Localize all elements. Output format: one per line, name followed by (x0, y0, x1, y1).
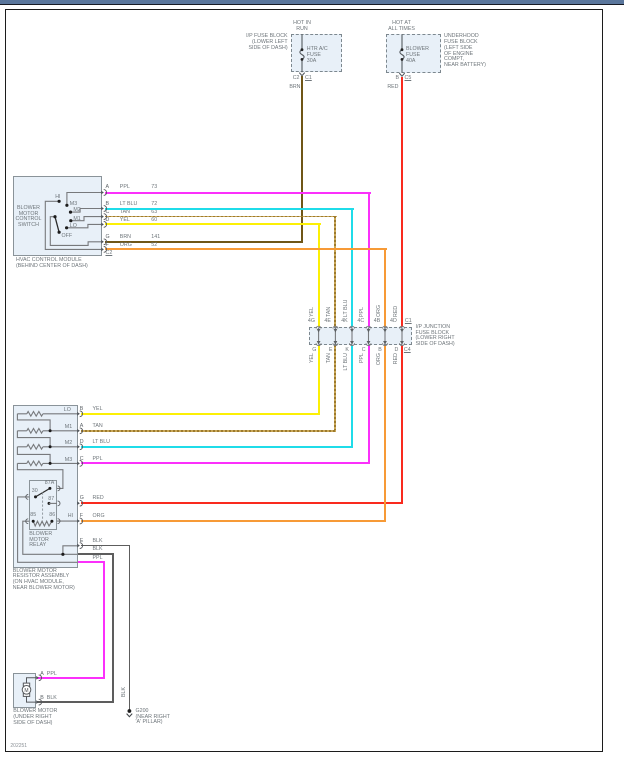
wire ORG horizontal to resistor pin F (81, 520, 387, 522)
relay pin label 30 (32, 489, 38, 495)
wire label BLK (vertical, near G200) (122, 685, 128, 697)
node HOT AT ALL TIMES (385, 21, 418, 33)
circuit 52 (151, 243, 157, 249)
I/P fuse block (dashed box) (291, 34, 342, 72)
fuse HTR A/C FUSE 30A label (307, 47, 328, 64)
wire BLK motor branch horizontal (78, 553, 114, 554)
wire label PPL (vertical, below) (360, 353, 366, 379)
wire ORG vertical below junction block (384, 345, 386, 522)
resistor pin C label (80, 457, 84, 463)
title bar dark underline (0, 4, 624, 6)
pin connector resistor E (77, 543, 82, 549)
wire junction block pass-through TAN (333, 326, 338, 345)
relay link (dashed) (42, 493, 44, 521)
wire LT BLU vertical below junction block (351, 345, 353, 448)
pin connector HVAC B (101, 206, 106, 212)
pin C label (106, 210, 110, 216)
wire PPL vertical below junction block (368, 345, 370, 464)
ground G200 label (136, 709, 170, 726)
pin connector relay 30 (26, 495, 28, 500)
relay pin label 87 (48, 497, 54, 503)
wire LT BLU vertical to junction block (351, 208, 353, 328)
switch position label M1 (73, 217, 80, 223)
label BLOWER MOTOR RESISTOR ASSEMBLY (13, 569, 75, 592)
wire switch HI contact to pin F (45, 201, 101, 249)
resistor pin A wire label TAN (93, 424, 103, 430)
switch contact OFF (58, 231, 61, 234)
pin G label (106, 235, 110, 241)
sheet number 202251 (10, 744, 27, 750)
I/P junction fuse block (dashed box) (309, 327, 413, 345)
switch position label LO (70, 224, 77, 230)
label BLOWER MOTOR RELAY (29, 532, 52, 549)
wire resistor chain link R2-R3 (17, 431, 50, 447)
pin D label (bottom) (395, 348, 399, 354)
circuit 63 (151, 210, 157, 216)
resistor pin E wire label BLK (93, 539, 103, 545)
wire BRN vertical from fuse C1 (301, 76, 303, 243)
wire label PPL (vertical, above) (360, 291, 366, 317)
wire PPL horizontal to resistor pin C (81, 462, 370, 464)
wire ORG horizontal from pin F (105, 248, 388, 250)
wire pin E tap (63, 546, 77, 555)
pin B (underhood fuse block) (389, 76, 399, 82)
switch position label M3 (70, 202, 77, 208)
pin B label (106, 202, 110, 208)
label BLOWER MOTOR CONTROL SWITCH (14, 206, 43, 229)
pin connector motor B (36, 699, 41, 705)
resistor row label LO (64, 408, 71, 414)
switch contact HI (58, 200, 61, 203)
wire label ORG (vertical, below) (377, 353, 383, 379)
resistor pin B wire label YEL (93, 407, 103, 413)
pin connector HVAC G (101, 239, 106, 245)
label BLOWER MOTOR (UNDER RIGHT SIDE OF DASH) (13, 709, 57, 726)
wire YEL horizontal from pin D (105, 223, 321, 225)
switch contact M1 (69, 219, 72, 222)
resistor row label M1 (65, 425, 72, 431)
connector C1 (I/P fuse block) (305, 76, 312, 82)
wire label YEL (vertical, above) (310, 291, 316, 317)
node junction R2 (49, 429, 52, 432)
wire label ORG (120, 243, 132, 249)
label HI (relay output) (68, 514, 73, 520)
resistor pin D wire label LT BLU (93, 440, 110, 446)
wire resistor chain to relay 87A (17, 463, 63, 488)
wire label BLK (motor ground branch) (93, 547, 103, 553)
wire label YEL (vertical, below) (310, 353, 316, 379)
wire relay 85 to BLK out (23, 521, 78, 554)
pin 4B label (374, 319, 380, 325)
label I/P JUNCTION FUSE BLOCK (416, 325, 455, 348)
pin C label (bottom) (362, 348, 366, 354)
wire junction block pass-through PPL (366, 326, 371, 345)
resistor pin G label (80, 496, 84, 502)
wire PPL motor feed horizontal to pin A (37, 677, 106, 679)
wire label TAN (120, 210, 130, 216)
connector C2 (I/P fuse block) (285, 76, 300, 82)
pin G label (bottom) (312, 348, 316, 354)
connector C1 (junction block top) (405, 319, 412, 325)
relay coil 85-86 (32, 520, 54, 526)
blower motor box (13, 673, 36, 709)
wire relay 30 to PPL out (18, 497, 78, 562)
label UNDERHOOD FUSE BLOCK (444, 34, 486, 69)
label HVAC CONTROL MODULE (BEHIND CENTER OF DASH) (16, 258, 88, 270)
wire PPL horizontal from pin A (105, 192, 371, 194)
resistor pin B label (80, 407, 84, 413)
motor pin B label (40, 696, 44, 702)
wire junction block pass-through LT BLU (350, 326, 355, 345)
switch contact M2 (69, 211, 72, 214)
pin E label (bottom) (329, 348, 333, 354)
fuse HTR A/C 30A (299, 34, 304, 75)
wire label LT BLU (vertical, below) (344, 353, 350, 379)
pin 4E label (324, 319, 330, 325)
HVAC control module box (13, 176, 102, 256)
node junction BLK (61, 553, 64, 556)
resistor R4 M3 (17, 461, 77, 466)
resistor row label M2 (65, 441, 72, 447)
wire YEL vertical to junction block (318, 223, 320, 327)
wire label BRN (120, 235, 131, 241)
switch position label M2 (73, 208, 80, 214)
wire label RED (384, 85, 399, 91)
circuit 72 (151, 202, 157, 208)
fuse BLOWER FUSE 40A label (406, 47, 429, 64)
wire TAN vertical below junction block (334, 345, 336, 431)
wire BLK motor branch horizontal to pin B (37, 701, 114, 702)
pin 4K label (341, 319, 347, 325)
pin connector relay 85 (26, 519, 28, 524)
relay pin label 86 (49, 513, 55, 519)
resistor pin A label (80, 424, 84, 430)
pin connector resistor D (77, 444, 82, 450)
wire PPL vertical to junction block (368, 192, 370, 328)
wire junction block pass-through YEL (316, 326, 321, 345)
resistor pin G wire label RED (93, 496, 104, 502)
blower motor relay box (29, 480, 57, 530)
pin connector relay 86 (58, 519, 60, 524)
relay armature 30 to 87A (36, 488, 50, 497)
wire label PPL (motor feed) (93, 556, 103, 562)
wire junction block pass-through RED (400, 326, 405, 345)
pin connector resistor F (77, 518, 82, 524)
wire resistor chain link R1-R2 (17, 414, 50, 431)
switch position label OFF (62, 234, 73, 240)
wire LT BLU horizontal from pin B (105, 208, 355, 210)
motor pin A wire label PPL (47, 672, 57, 678)
wire BRN horizontal to HVAC pin G (105, 241, 304, 243)
wire switch M2 contact to pin B (71, 209, 102, 213)
pin connector relay 87 (58, 501, 60, 506)
relay contact 30 (34, 495, 37, 498)
connector C4 (junction block bottom) (404, 348, 411, 354)
wire PPL motor feed horizontal (78, 561, 106, 563)
wire label TAN (vertical, above) (327, 291, 333, 317)
pin connector HVAC A (101, 190, 106, 196)
wire RED horizontal to resistor pin G (81, 502, 404, 504)
relay pin label 85 (30, 513, 36, 519)
wire label RED (vertical, below) (394, 353, 400, 379)
wire relay 86 to pin F (57, 520, 77, 522)
title bar remnant (0, 0, 624, 4)
motor M symbol (22, 678, 36, 702)
pin 4G label (308, 319, 315, 325)
wire BLK motor branch vertical (112, 553, 113, 702)
relay contact 87A (48, 487, 51, 490)
wire switch LO contact to pin D (67, 224, 102, 227)
wire label TAN (vertical, below) (327, 353, 333, 379)
circuit 73 (151, 185, 157, 191)
resistor pin E label (80, 539, 84, 545)
resistor pin C wire label PPL (93, 457, 103, 463)
switch contact LO (65, 226, 68, 229)
pin F label (106, 243, 109, 249)
wire BLK vertical to G200 (129, 545, 130, 712)
pin 4C label (357, 319, 364, 325)
wire resistor chain link R3-R4 (17, 447, 50, 464)
ground G200 (127, 709, 133, 717)
wire switch M1 contact to pin C (71, 217, 101, 221)
resistor pin D label (80, 440, 84, 446)
resistor row label M3 (65, 458, 72, 464)
resistor R2 M1 (17, 429, 77, 434)
motor pin B wire label BLK (47, 696, 57, 702)
resistor pin F wire label ORG (93, 514, 105, 520)
fuse BLOWER 40A (399, 34, 404, 76)
pin connector motor A (36, 675, 41, 681)
wire label YEL (120, 218, 130, 224)
relay contact 87 (48, 502, 58, 505)
pin connector resistor B (77, 411, 82, 417)
pin D label (106, 218, 110, 224)
label I/P FUSE BLOCK (228, 34, 288, 51)
wire switch M3 contact to pin A (67, 193, 101, 206)
wire ORG vertical to junction block (384, 248, 386, 327)
pin A label (106, 185, 110, 191)
wire label LT BLU (120, 202, 137, 208)
switch contact M3 (65, 204, 68, 207)
wire RED vertical junction block to turn (401, 345, 403, 504)
connector C5 (underhood fuse block) (405, 76, 412, 82)
switch arm (OFF position) (55, 217, 59, 232)
underhood fuse block (dashed box) (386, 34, 440, 73)
switch contact pivot (53, 215, 56, 218)
wire YEL horizontal to resistor pin B (81, 413, 320, 415)
pin connector resistor G (77, 500, 82, 506)
wire LT BLU horizontal to resistor pin D (81, 446, 354, 448)
pin 4D label (390, 319, 397, 325)
pin connector resistor A (77, 428, 82, 434)
circuit 60 (151, 218, 157, 224)
pin connector HVAC C (101, 214, 106, 220)
wire PPL motor feed vertical (103, 561, 105, 678)
wire label PPL (120, 185, 130, 191)
resistor R1 LO (17, 412, 77, 417)
motor pin A label (40, 672, 44, 678)
wire RED vertical from fuse C5 to junction block (401, 77, 403, 328)
node junction R4 (49, 462, 52, 465)
pin connector resistor C (77, 461, 82, 467)
node junction R3 (49, 445, 52, 448)
pin connector HVAC D (101, 222, 106, 228)
wire label BRN (286, 85, 301, 91)
wire junction block pass-through ORG (383, 326, 388, 345)
wire TAN horizontal to resistor pin A (81, 430, 337, 432)
svg-text:M: M (24, 688, 28, 694)
resistor R3 M2 (17, 445, 77, 450)
connector C2 (HVAC module) (106, 251, 113, 257)
wire label RED (vertical, above) (394, 291, 400, 317)
blower motor resistor assembly box (13, 405, 78, 569)
pin K label (bottom) (345, 348, 349, 354)
pin B label (bottom) (378, 348, 382, 354)
wire BLK from pin E horizontal (81, 545, 131, 546)
switch position label HI (55, 195, 60, 201)
relay pin label 87A (45, 481, 54, 487)
pin connector relay 87A (58, 486, 60, 491)
wire label LT BLU (vertical, above) (344, 291, 350, 317)
wire TAN horizontal from pin C (105, 216, 338, 218)
wire YEL vertical below junction block (318, 345, 320, 414)
wire label ORG (vertical, above) (377, 291, 383, 317)
circuit 141 (151, 235, 160, 241)
resistor pin F label (80, 514, 83, 520)
wire switch pivot to pin G (50, 217, 101, 246)
node HOT IN RUN (287, 21, 317, 33)
pin connector HVAC F (101, 247, 106, 253)
wire TAN vertical to junction block (334, 216, 336, 327)
